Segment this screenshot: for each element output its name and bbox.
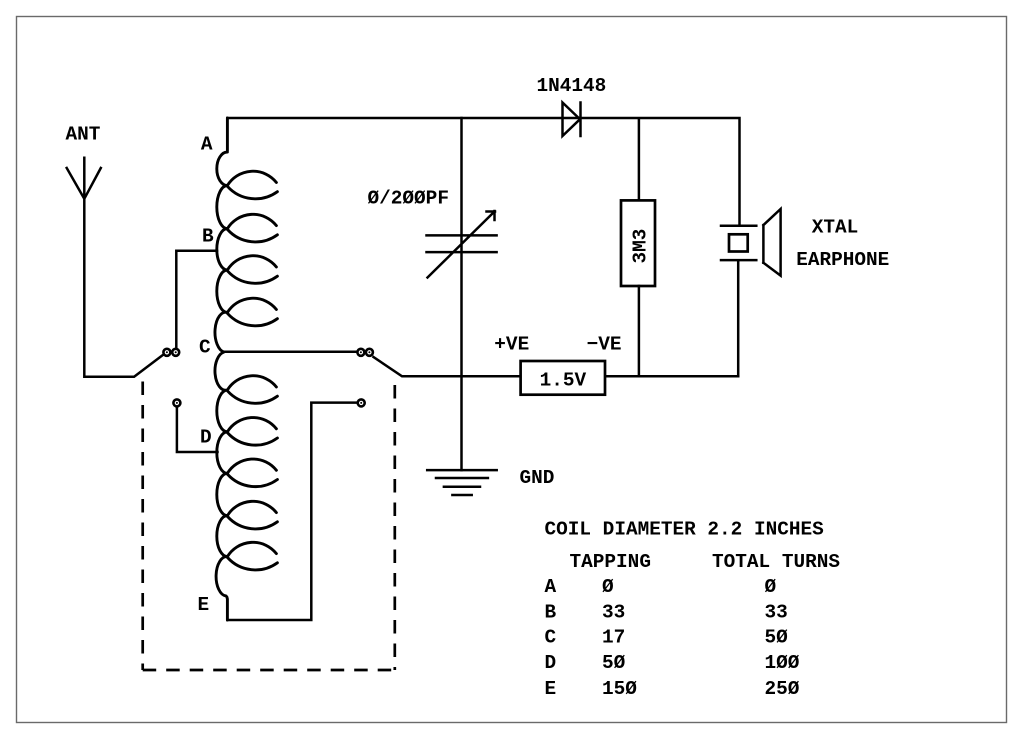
svg-text:ANT: ANT — [66, 123, 101, 145]
svg-text:EARPHONE: EARPHONE — [796, 249, 889, 271]
svg-text:33: 33 — [765, 601, 788, 623]
svg-text:25Ø: 25Ø — [765, 678, 800, 700]
svg-text:+VE: +VE — [494, 333, 529, 355]
svg-text:5Ø: 5Ø — [602, 652, 626, 674]
svg-text:C: C — [545, 627, 557, 649]
svg-text:D: D — [200, 427, 212, 449]
svg-text:1.5V: 1.5V — [540, 370, 587, 392]
svg-text:3M3: 3M3 — [630, 229, 652, 264]
svg-text:B: B — [545, 601, 557, 623]
svg-text:Ø: Ø — [765, 576, 777, 598]
svg-text:B: B — [202, 225, 214, 247]
svg-text:TOTAL TURNS: TOTAL TURNS — [712, 551, 840, 573]
svg-text:D: D — [545, 652, 557, 674]
svg-text:Ø/2ØØPF: Ø/2ØØPF — [368, 188, 449, 210]
svg-text:COIL DIAMETER 2.2 INCHES: COIL DIAMETER 2.2 INCHES — [545, 519, 825, 541]
svg-text:E: E — [545, 678, 557, 700]
svg-text:TAPPING: TAPPING — [570, 551, 651, 573]
svg-text:E: E — [198, 594, 210, 616]
svg-text:−VE: −VE — [587, 333, 622, 355]
svg-text:5Ø: 5Ø — [765, 627, 789, 649]
svg-text:A: A — [545, 576, 557, 598]
svg-text:A: A — [201, 134, 213, 156]
svg-text:17: 17 — [602, 627, 625, 649]
svg-text:15Ø: 15Ø — [602, 678, 637, 700]
svg-text:1ØØ: 1ØØ — [765, 652, 800, 674]
svg-text:C: C — [199, 337, 211, 359]
svg-text:XTAL: XTAL — [812, 217, 859, 239]
svg-text:33: 33 — [602, 601, 625, 623]
svg-text:GND: GND — [520, 467, 555, 489]
svg-text:Ø: Ø — [602, 576, 614, 598]
svg-text:1N4148: 1N4148 — [537, 75, 607, 97]
